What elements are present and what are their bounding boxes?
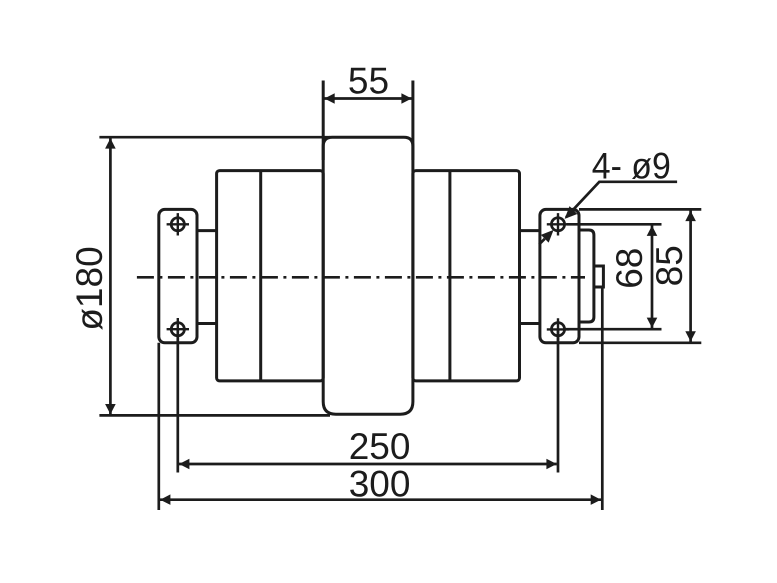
svg-text:4- ø9: 4- ø9 xyxy=(592,145,671,186)
svg-text:ø180: ø180 xyxy=(69,246,110,330)
svg-text:85: 85 xyxy=(649,245,690,286)
svg-text:68: 68 xyxy=(609,248,650,289)
svg-text:250: 250 xyxy=(349,426,411,467)
svg-text:55: 55 xyxy=(348,61,389,102)
svg-text:300: 300 xyxy=(349,464,411,505)
